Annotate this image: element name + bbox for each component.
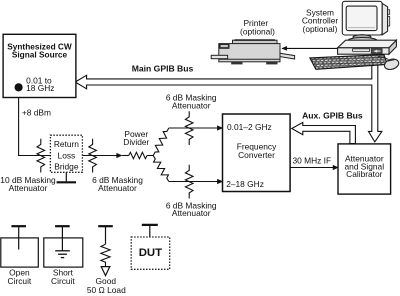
- svg-text:Attenuator: Attenuator: [98, 183, 137, 193]
- svg-text:Loss: Loss: [58, 150, 76, 160]
- svg-text:Aux. GPIB Bus: Aux. GPIB Bus: [302, 110, 363, 120]
- svg-text:Attenuator: Attenuator: [172, 208, 211, 218]
- svg-text:50 Ω Load: 50 Ω Load: [87, 285, 126, 295]
- svg-text:Main GPIB Bus: Main GPIB Bus: [132, 63, 194, 73]
- svg-text:Attenuator: Attenuator: [172, 100, 211, 110]
- svg-text:Attenuator: Attenuator: [9, 183, 48, 193]
- svg-text:Circuit: Circuit: [8, 276, 32, 286]
- svg-text:Return: Return: [54, 139, 79, 149]
- svg-text:Calibrator: Calibrator: [346, 169, 383, 179]
- svg-text:DUT: DUT: [139, 247, 162, 259]
- svg-text:+8 dBm: +8 dBm: [22, 107, 51, 117]
- svg-text:Converter: Converter: [238, 150, 275, 160]
- svg-text:Signal Source: Signal Source: [12, 50, 68, 60]
- svg-text:Divider: Divider: [123, 137, 149, 147]
- svg-text:0.01–2 GHz: 0.01–2 GHz: [227, 122, 272, 132]
- svg-text:2–18 GHz: 2–18 GHz: [226, 179, 264, 189]
- svg-text:Circuit: Circuit: [51, 276, 75, 286]
- svg-text:18 GHz: 18 GHz: [26, 83, 54, 93]
- svg-text:30 MHz IF: 30 MHz IF: [293, 156, 332, 166]
- svg-text:(optional): (optional): [240, 26, 275, 36]
- svg-text:(optional): (optional): [303, 24, 338, 34]
- svg-text:Bridge: Bridge: [54, 161, 79, 171]
